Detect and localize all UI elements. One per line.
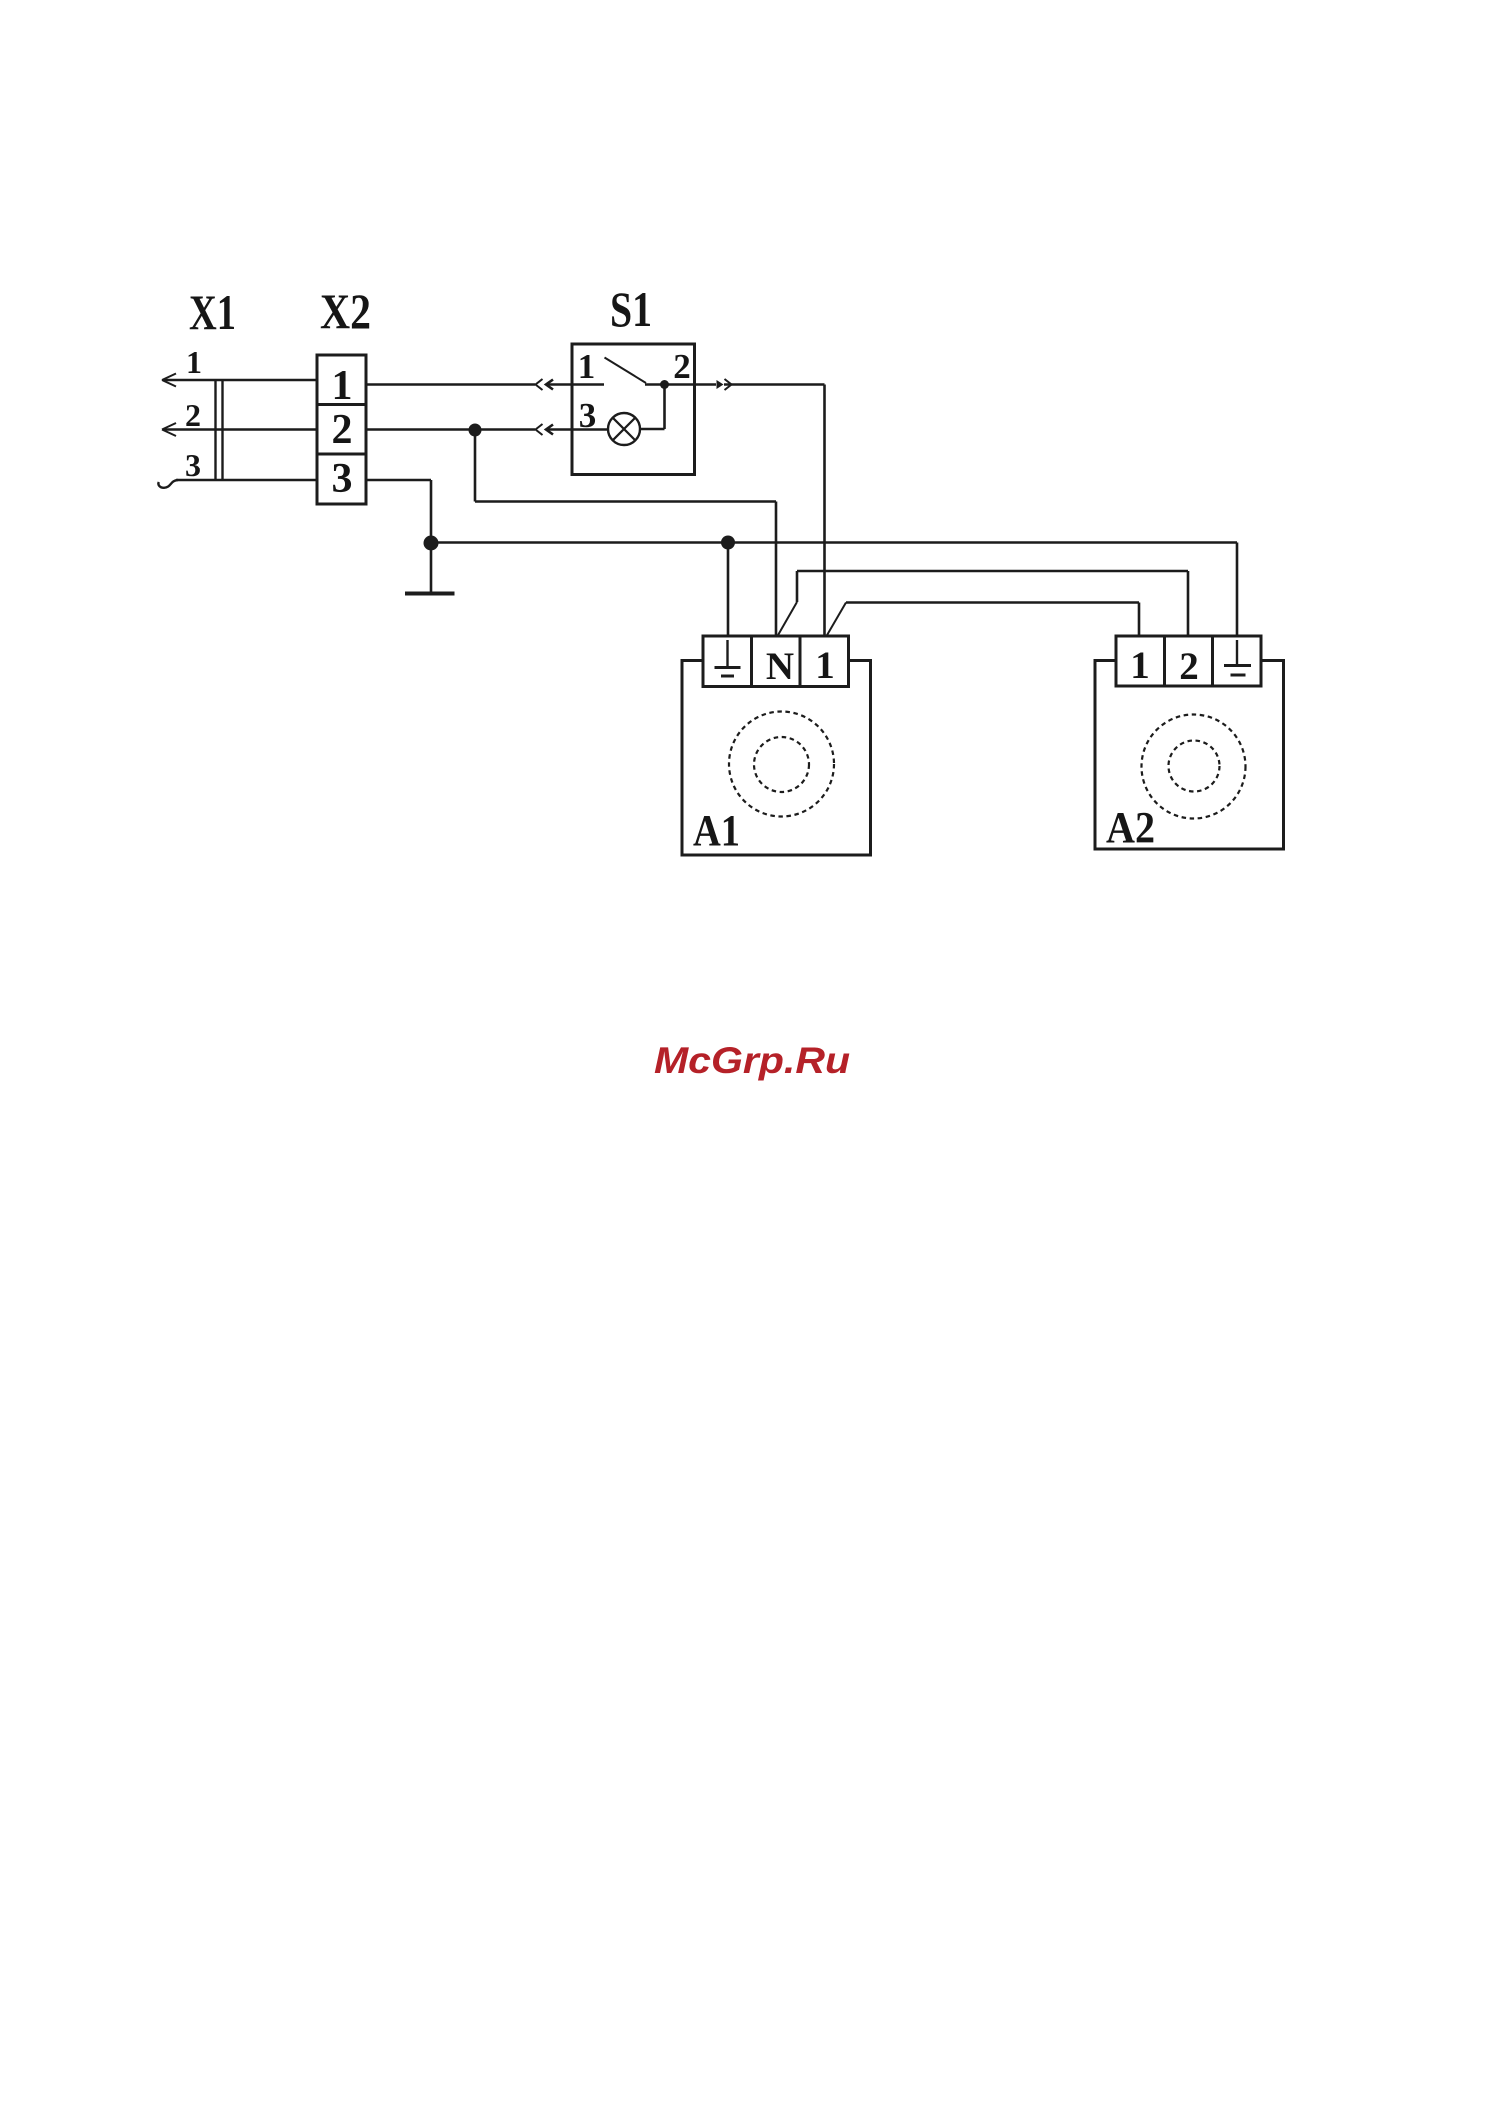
svg-text:1: 1 xyxy=(332,363,353,409)
appliance A1 box xyxy=(682,661,871,856)
wire A1 N to A2 2 xyxy=(797,570,1188,573)
svg-text:S1: S1 xyxy=(610,281,652,337)
wire X2-3 to ground xyxy=(366,479,431,482)
A1 earth terminal symbol xyxy=(726,640,728,667)
wire drop to A2 terminal 2 xyxy=(1187,571,1190,636)
connector chevrons on S1 output xyxy=(717,380,724,389)
svg-text:A2: A2 xyxy=(1106,803,1155,852)
A1 terminal box xyxy=(703,636,849,687)
svg-text:X2: X2 xyxy=(320,283,371,339)
svg-text:N: N xyxy=(766,645,794,688)
wire X1-3 to X2-3 xyxy=(176,479,317,482)
svg-text:A1: A1 xyxy=(693,806,740,855)
wire X1-1 to X2-1 xyxy=(164,379,317,382)
ground junction node xyxy=(424,536,439,551)
A1 burner inner circle xyxy=(754,737,809,792)
svg-text:1: 1 xyxy=(578,347,596,386)
wire drop to A2 earth terminal xyxy=(1236,543,1239,637)
S1 lamp xyxy=(608,413,640,445)
A2 terminal box xyxy=(1116,636,1261,686)
junction node on wire 2 xyxy=(469,424,482,437)
connector chevrons on wire 2 xyxy=(536,424,543,435)
wire X1-2 to X2-2 xyxy=(164,428,317,431)
A1 terminal dividers xyxy=(750,636,753,687)
svg-text:2: 2 xyxy=(185,397,201,433)
wire X2-1 to S1-1 xyxy=(366,383,535,386)
ground stem xyxy=(430,543,433,593)
A1 burner outer circle xyxy=(729,712,834,817)
wire drop to A2 terminal 1 xyxy=(1138,603,1141,637)
svg-text:X1: X1 xyxy=(189,284,236,340)
svg-text:2: 2 xyxy=(1179,645,1199,688)
wire drop to A1 earth terminal xyxy=(727,543,730,637)
hook on X1 wire 3 xyxy=(158,480,178,488)
svg-text:1: 1 xyxy=(815,644,835,687)
wire S1-2 output xyxy=(695,383,717,386)
switch S1 box xyxy=(572,344,695,475)
wire A1 1 to A2 1 xyxy=(846,601,1139,604)
S1 internal junction blob xyxy=(660,380,669,389)
S1 internal vertical wire xyxy=(663,385,666,430)
ground bar xyxy=(405,592,455,596)
svg-text:2: 2 xyxy=(673,347,691,386)
wire to A1 N horizontal xyxy=(475,500,776,503)
X2 cell divider 2 xyxy=(317,453,366,456)
A2 terminal dividers xyxy=(1163,636,1166,686)
wire node2 drop xyxy=(474,430,477,502)
S1 pin 2 internal wire xyxy=(645,383,695,386)
S1 lamp wire right xyxy=(640,428,665,431)
ground bus wire xyxy=(431,541,1237,544)
arrow on X1 wire 1 xyxy=(162,374,176,387)
svg-text:3: 3 xyxy=(332,456,353,502)
wire X2-2 to S1-3 xyxy=(366,428,535,431)
wire drop to A1 terminal 1 xyxy=(823,385,826,637)
svg-text:McGrp.Ru: McGrp.Ru xyxy=(654,1040,850,1081)
S1 switch lever xyxy=(605,358,647,384)
arrow on X1 wire 2 xyxy=(162,423,176,436)
svg-text:1: 1 xyxy=(186,344,202,380)
svg-text:1: 1 xyxy=(1130,644,1150,687)
X2 cell divider 1 xyxy=(317,403,366,406)
svg-text:2: 2 xyxy=(332,407,353,453)
diagonal lead into A1 N xyxy=(778,602,798,636)
X1 cable double line xyxy=(214,379,216,481)
diagonal lead into A1 1 xyxy=(827,603,847,637)
S1 pin 1 stub xyxy=(572,383,604,386)
connector X2 box xyxy=(317,355,366,504)
junction node on ground bus xyxy=(721,536,735,550)
A2 burner inner circle xyxy=(1169,741,1220,792)
appliance A2 box xyxy=(1095,661,1284,850)
connector chevrons on wire 1 xyxy=(536,379,543,390)
wire drop to A1 terminal N xyxy=(775,502,778,637)
A2 earth terminal symbol xyxy=(1236,640,1238,665)
S1 pin 3 stub xyxy=(572,428,608,431)
A2 burner outer circle xyxy=(1142,715,1246,819)
svg-text:3: 3 xyxy=(185,447,201,483)
